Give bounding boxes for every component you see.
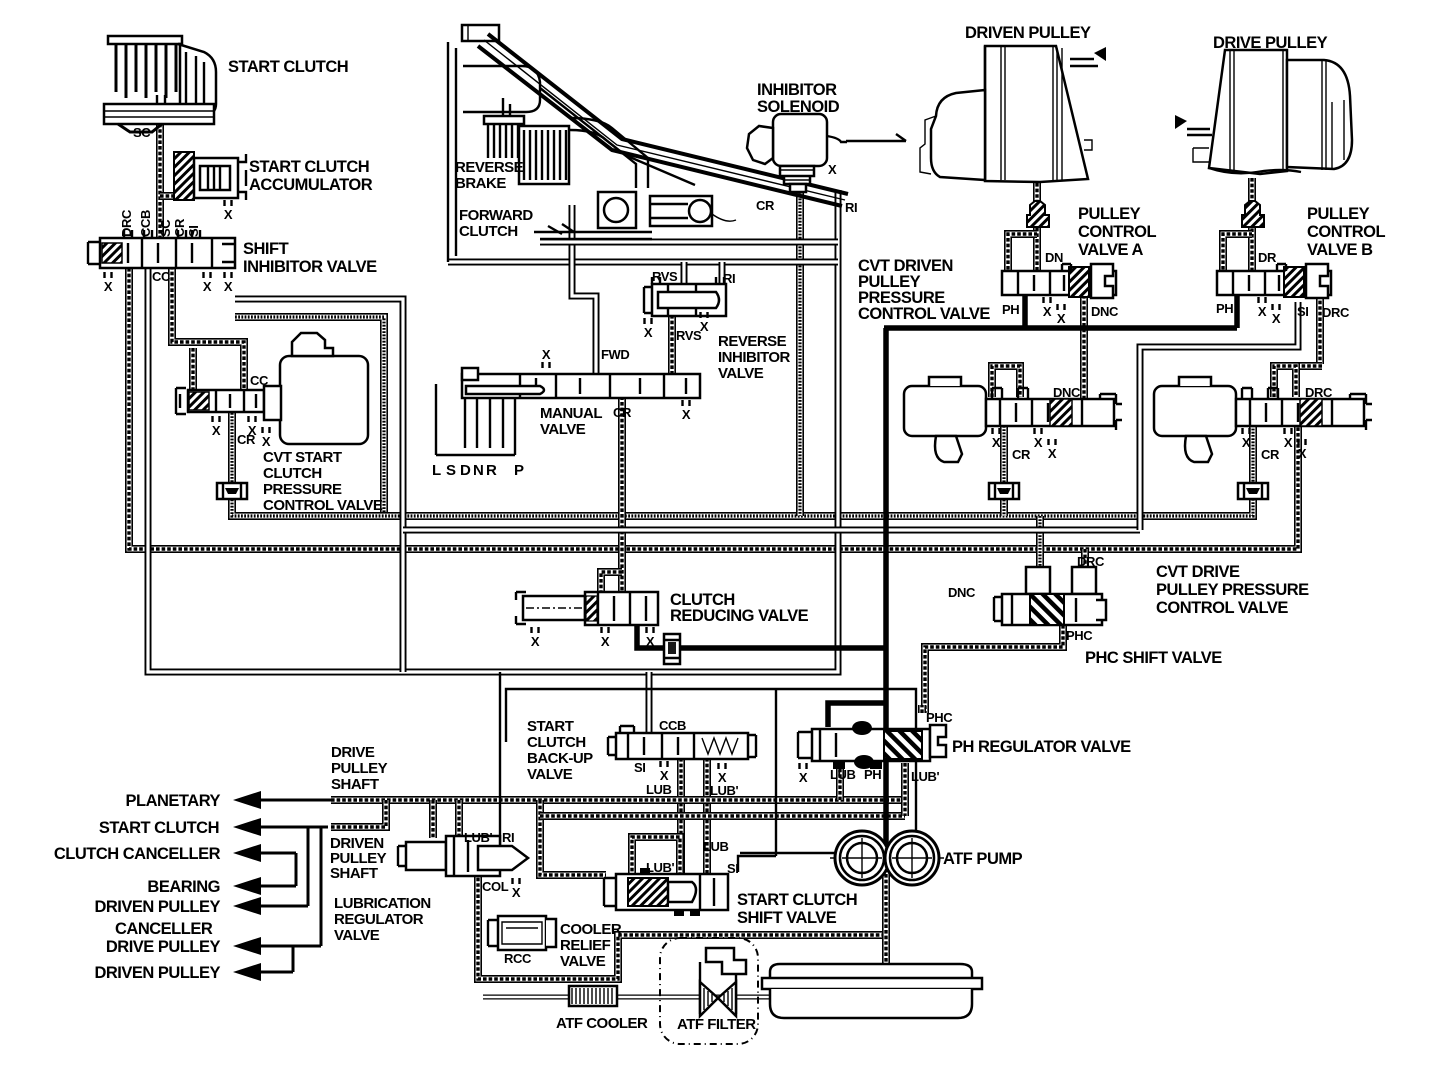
wire LUB drop lines to start clutch shift valve — [681, 758, 707, 874]
svg-text:RELIEF: RELIEF — [560, 937, 611, 954]
wire RI thin line to lubrication regulator valve — [499, 672, 501, 846]
svg-text:X: X — [660, 768, 669, 783]
label CCB — [659, 718, 686, 733]
wire suction line from oil pan to ATF pump — [882, 858, 890, 984]
svg-text:X: X — [601, 634, 610, 649]
svg-text:N: N — [473, 462, 483, 479]
svg-text:RI: RI — [502, 830, 514, 845]
ATF pump — [830, 831, 944, 885]
svg-text:RCC: RCC — [504, 951, 532, 966]
svg-text:CONTROL: CONTROL — [1078, 223, 1156, 241]
svg-text:X: X — [1242, 435, 1251, 450]
svg-text:CLUTCH: CLUTCH — [263, 465, 322, 482]
svg-text:CCB: CCB — [659, 718, 686, 733]
wire drain collection box (thin) — [506, 689, 916, 853]
label LUB' (regulator) — [911, 769, 940, 784]
svg-text:CANCELLER: CANCELLER — [115, 920, 213, 938]
label START CLUTCH BACK-UP VALVE — [527, 718, 593, 783]
svg-text:REDUCING VALVE: REDUCING VALVE — [670, 607, 809, 625]
svg-text:X: X — [262, 434, 271, 449]
wire PHC line (PHC shift valve to PH regulator valve) — [925, 625, 1063, 713]
svg-text:X: X — [224, 207, 233, 222]
label CLUTCH CANCELLER — [54, 845, 221, 863]
wire LUB riser to PH regulator valve — [836, 763, 844, 800]
svg-text:INHIBITOR VALVE: INHIBITOR VALVE — [243, 258, 377, 276]
svg-text:BRAKE: BRAKE — [455, 175, 506, 192]
lubrication regulator valve — [398, 836, 528, 876]
wire PHC riser from PH regulator to PHC shift valve area — [918, 705, 926, 713]
wire FWD line (forward clutch to manual valve) — [572, 205, 596, 374]
label ATF FILTER — [677, 1016, 756, 1033]
label SI (valve B) — [1297, 304, 1308, 319]
svg-text:START: START — [527, 718, 574, 735]
svg-text:RVS: RVS — [652, 269, 678, 284]
CVT drive pulley pressure control valve — [1154, 377, 1372, 462]
label L S D N R P — [432, 462, 524, 479]
svg-text:DRC: DRC — [119, 209, 134, 237]
svg-text:X: X — [799, 770, 808, 785]
svg-text:COOLER: COOLER — [560, 921, 622, 938]
label MANUAL VALVE — [540, 405, 602, 438]
wire LUB bus (y=800, drive pulley shaft lube) — [331, 796, 905, 804]
svg-text:X: X — [828, 162, 837, 177]
svg-text:SI: SI — [1297, 304, 1308, 319]
label LUB' (back-up valve) — [710, 783, 739, 798]
svg-text:R: R — [486, 462, 497, 479]
wire loop above CVT driven pulley PCV — [992, 366, 1020, 397]
wire stipple branch x=390 from shift inhibitor valve into CR bus A — [235, 317, 384, 514]
svg-text:VALVE: VALVE — [334, 927, 380, 944]
CVT driven pulley pressure control valve — [904, 377, 1122, 462]
label RI (lube valve) — [502, 830, 514, 845]
label START CLUTCH ACCUMULATOR — [249, 158, 373, 194]
svg-text:DRIVE PULLEY: DRIVE PULLEY — [106, 938, 221, 956]
label DRIVEN PULLEY (arrow) — [94, 964, 220, 982]
ATF cooler — [569, 986, 617, 1006]
wire CR bus A (stipple, y=516) with orifice risers — [232, 192, 1253, 567]
label CR (manual valve) — [613, 405, 632, 420]
clutch reducing valve — [516, 592, 658, 625]
svg-text:VALVE: VALVE — [540, 421, 586, 438]
svg-text:DRC: DRC — [1305, 385, 1333, 400]
svg-text:DRIVEN PULLEY: DRIVEN PULLEY — [94, 964, 220, 982]
wire PH main pressure line (ATF pump up to pulley control valves) — [884, 290, 1237, 860]
drive pulley — [1175, 50, 1352, 174]
label RI (reverse inhibitor) — [723, 271, 735, 286]
svg-text:RI: RI — [845, 200, 857, 215]
svg-text:PH: PH — [864, 767, 881, 782]
svg-text:INHIBITOR: INHIBITOR — [718, 349, 791, 366]
wire driven pulley shaft feed — [1027, 183, 1049, 272]
svg-text:CONTROL VALVE: CONTROL VALVE — [1156, 599, 1288, 617]
wire loop above start clutch shift valve — [632, 837, 680, 877]
svg-text:BEARING: BEARING — [147, 878, 220, 896]
svg-text:CR: CR — [172, 218, 187, 237]
svg-text:PULLEY: PULLEY — [1307, 205, 1370, 223]
cooler relief valve — [488, 916, 556, 950]
oil pan — [762, 964, 982, 1018]
label FWD — [601, 347, 629, 362]
svg-text:MANUAL: MANUAL — [540, 405, 602, 422]
node PLANETARY arrow — [233, 791, 331, 809]
label COOLER RELIEF VALVE — [560, 921, 622, 970]
label DNC (driven PCV) — [1053, 385, 1081, 400]
label INHIBITOR SOLENOID — [757, 81, 840, 116]
label DRIVEN PULLEY SHAFT — [330, 835, 387, 882]
label START CLUTCH SHIFT VALVE — [737, 891, 857, 927]
label PULLEY CONTROL VALVE A — [1078, 205, 1156, 259]
label DN — [1045, 250, 1063, 265]
svg-text:SI: SI — [634, 760, 645, 775]
pulley control valve B — [1217, 234, 1331, 298]
svg-text:SOLENOID: SOLENOID — [757, 98, 840, 116]
svg-text:X: X — [1043, 304, 1052, 319]
label DRC (drive PCV) — [1305, 385, 1333, 400]
label RI (solenoid) — [845, 200, 857, 215]
svg-text:X: X — [1034, 435, 1043, 450]
label LUB (shift valve) — [703, 839, 729, 854]
forward clutch and reverse brake assembly — [448, 25, 848, 262]
svg-text:LUB: LUB — [830, 767, 856, 782]
svg-text:REVERSE: REVERSE — [455, 159, 524, 176]
svg-text:REVERSE: REVERSE — [718, 333, 787, 350]
wire DRC leg from bus C to PHC shift valve DRC box — [1081, 549, 1089, 567]
svg-text:CLUTCH: CLUTCH — [527, 734, 586, 751]
svg-text:LUB: LUB — [646, 782, 672, 797]
inhibitor solenoid — [747, 114, 847, 192]
wire SI line from pulley control valve B to bus B — [1140, 302, 1298, 530]
svg-text:LUB': LUB' — [464, 830, 493, 845]
label CR (PCV orifice) — [237, 432, 256, 447]
svg-text:X: X — [542, 347, 551, 362]
svg-text:DNC: DNC — [1053, 385, 1081, 400]
label RVS bottom — [676, 328, 702, 343]
svg-text:CR: CR — [1012, 447, 1031, 462]
svg-text:PRESSURE: PRESSURE — [263, 481, 342, 498]
wire DRC left riser and CR bus C (hatched, y=549) to drive PCV DRC — [129, 268, 1298, 549]
shift inhibitor valve — [88, 230, 236, 268]
label X and RVS top — [652, 269, 678, 284]
svg-text:ATF PUMP: ATF PUMP — [943, 850, 1023, 868]
svg-text:X: X — [646, 634, 655, 649]
wire clutch assembly base line y=242 — [540, 239, 838, 246]
label START CLUTCH — [228, 58, 348, 76]
wire CCB drop to start clutch back-up valve — [646, 672, 653, 733]
svg-text:PLANETARY: PLANETARY — [126, 792, 221, 810]
label DRIVE PULLEY — [1213, 34, 1328, 52]
wire driven pulley shaft stub (y=827) — [331, 800, 386, 827]
orifice on PH line from clutch reducing valve — [664, 634, 680, 664]
svg-text:DN: DN — [1045, 250, 1063, 265]
node CLUTCH CANCELLER arrow — [233, 844, 296, 886]
svg-text:SC: SC — [133, 125, 151, 140]
label SHIFT INHIBITOR VALVE — [243, 240, 377, 276]
svg-text:DNC: DNC — [1091, 304, 1119, 319]
drain ports X — [104, 200, 1307, 900]
node DRIVEN PULLEY CANCELLER arrow — [233, 827, 308, 915]
svg-text:X: X — [104, 279, 113, 294]
svg-text:CONTROL VALVE: CONTROL VALVE — [858, 305, 990, 323]
svg-text:DRIVE PULLEY: DRIVE PULLEY — [1213, 34, 1328, 52]
svg-text:PH: PH — [1216, 301, 1233, 316]
label DRC (PHC shift valve) — [1077, 554, 1105, 569]
CVT start clutch pressure control valve — [176, 333, 368, 444]
wire SI thin line from start clutch shift valve — [738, 689, 776, 872]
label DNC (valve A) — [1091, 304, 1119, 319]
svg-text:VALVE: VALVE — [560, 953, 606, 970]
wire LUB' riser to PH regulator valve — [901, 763, 909, 816]
svg-text:PULLEY: PULLEY — [1078, 205, 1141, 223]
svg-text:PH: PH — [1002, 302, 1019, 317]
start clutch accumulator — [174, 152, 246, 200]
svg-text:X: X — [1284, 435, 1293, 450]
label PLANETARY — [126, 792, 221, 810]
svg-text:VALVE A: VALVE A — [1078, 241, 1144, 259]
wire PH black elbow at PH regulator valve — [828, 703, 884, 727]
svg-text:CONTROL: CONTROL — [1307, 223, 1385, 241]
svg-text:LUBRICATION: LUBRICATION — [334, 895, 431, 912]
label PH (regulator) — [864, 767, 881, 782]
label RCC — [504, 951, 532, 966]
svg-text:LUB': LUB' — [710, 783, 739, 798]
svg-text:S: S — [446, 462, 456, 479]
svg-text:VALVE: VALVE — [527, 766, 573, 783]
svg-text:DR: DR — [1258, 250, 1277, 265]
svg-text:SHIFT: SHIFT — [243, 240, 289, 258]
svg-text:START CLUTCH: START CLUTCH — [99, 819, 219, 837]
label PULLEY CONTROL VALVE B — [1307, 205, 1385, 259]
svg-text:DRIVEN PULLEY: DRIVEN PULLEY — [94, 898, 220, 916]
label FORWARD CLUTCH — [459, 207, 533, 240]
start clutch back-up valve — [608, 726, 756, 759]
label REVERSE BRAKE — [455, 159, 524, 192]
label PH REGULATOR VALVE — [952, 738, 1131, 756]
svg-text:DRIVEN PULLEY: DRIVEN PULLEY — [965, 24, 1091, 42]
svg-text:CR: CR — [756, 198, 775, 213]
label DNC (PHC shift valve) — [948, 585, 976, 600]
svg-text:BACK-UP: BACK-UP — [527, 750, 593, 767]
label LUB (back-up valve) — [646, 782, 672, 797]
label ATF PUMP — [943, 850, 1023, 868]
svg-text:FWD: FWD — [601, 347, 629, 362]
svg-text:REGULATOR: REGULATOR — [334, 911, 424, 928]
orifice on drive PCV CR line — [1238, 483, 1268, 499]
label DR — [1258, 250, 1277, 265]
svg-text:CVT START: CVT START — [263, 449, 342, 466]
label PH (valve B) — [1216, 301, 1233, 316]
svg-text:FORWARD: FORWARD — [459, 207, 533, 224]
label DRC (valve B) — [1322, 305, 1350, 320]
wire PH line from clutch reducing valve — [637, 623, 884, 648]
label CR (solenoid) — [756, 198, 775, 213]
svg-text:LUB': LUB' — [911, 769, 940, 784]
ATF filter — [660, 938, 758, 1044]
svg-text:CLUTCH CANCELLER: CLUTCH CANCELLER — [54, 845, 221, 863]
svg-text:ATF FILTER: ATF FILTER — [677, 1016, 756, 1033]
wire RI bus D (shift inhibitor valve, y=672, up to inhibitor solenoid) — [148, 190, 838, 672]
svg-text:SI: SI — [186, 226, 201, 237]
label ATF COOLER — [556, 1015, 648, 1032]
manual valve with selector positions — [436, 368, 700, 455]
svg-text:X: X — [1048, 446, 1057, 461]
label LUBRICATION REGULATOR VALVE — [334, 895, 431, 944]
svg-text:ATF COOLER: ATF COOLER — [556, 1015, 648, 1032]
svg-text:PHC: PHC — [926, 710, 953, 725]
wire RVS line (reverse inhibitor valve to manual valve) and CR drop to clutch reducing valve — [601, 315, 672, 593]
label CC (PCV) — [250, 373, 269, 388]
svg-text:X: X — [644, 325, 653, 340]
labels DRC CCB SC CR SI (rotated ports) — [119, 209, 201, 237]
PHC shift valve — [994, 567, 1106, 625]
svg-text:RVS: RVS — [676, 328, 702, 343]
wire DNC line (pulley control valve A to driven PCV) — [1080, 295, 1088, 399]
svg-text:PULLEY PRESSURE: PULLEY PRESSURE — [1156, 581, 1309, 599]
wire cooler relief loop and return bus (y=935) — [478, 872, 886, 979]
orifice on CVT start clutch PCV CR line — [217, 483, 247, 499]
wire DNC bus B (y=530) — [403, 527, 1140, 534]
label SC — [133, 125, 151, 140]
wire cooler return line y=997 to oil pan — [483, 995, 893, 1000]
svg-text:P: P — [514, 462, 524, 479]
svg-text:DRIVE: DRIVE — [331, 744, 375, 761]
svg-text:SHIFT VALVE: SHIFT VALVE — [737, 909, 837, 927]
label CR (driven PCV) — [1012, 447, 1031, 462]
svg-text:SHAFT: SHAFT — [331, 776, 379, 793]
node DRIVE PULLEY arrow — [233, 827, 321, 955]
svg-text:PHC SHIFT VALVE: PHC SHIFT VALVE — [1085, 649, 1222, 667]
svg-text:COL: COL — [482, 879, 509, 894]
wire SI run y=299 from shift inhibitor valve down right side x=403 — [235, 299, 403, 672]
svg-text:SC: SC — [158, 219, 173, 237]
label LUB (regulator) — [830, 767, 856, 782]
wire solenoid connector stub — [846, 134, 906, 141]
svg-text:X: X — [1298, 446, 1307, 461]
node START CLUTCH arrow — [233, 818, 328, 836]
wire SC line (start clutch to shift inhibitor valve) — [160, 118, 178, 240]
svg-text:START CLUTCH: START CLUTCH — [737, 891, 857, 909]
wire feeds from LUB bus to lubrication regulator valve — [433, 800, 459, 838]
reverse inhibitor valve — [644, 277, 726, 316]
label DRIVE PULLEY (arrow) — [106, 938, 221, 956]
label PH (valve A) — [1002, 302, 1019, 317]
svg-text:X: X — [512, 885, 521, 900]
orifice on driven PCV CR line — [989, 483, 1019, 499]
svg-text:DNC: DNC — [948, 585, 976, 600]
svg-text:X: X — [682, 407, 691, 422]
wire drive pulley shaft feed — [1242, 178, 1264, 272]
label DRIVEN PULLEY — [965, 24, 1091, 42]
svg-text:START CLUTCH: START CLUTCH — [249, 158, 369, 176]
label PHC SHIFT VALVE — [1085, 649, 1222, 667]
label START CLUTCH (arrow) — [99, 819, 219, 837]
label REVERSE INHIBITOR VALVE — [718, 333, 791, 382]
label SI (back-up valve) — [634, 760, 645, 775]
wire loop above CVT drive pulley PCV — [1274, 366, 1296, 397]
svg-text:PULLEY: PULLEY — [331, 760, 388, 777]
label CC (shift inhibitor) — [152, 269, 171, 284]
svg-text:SI: SI — [727, 861, 738, 876]
wire DRC line (pulley control valve B to drive PCV) — [1296, 295, 1322, 366]
wire CC line (shift inhibitor valve to CVT start clutch PCV) — [172, 266, 244, 390]
svg-text:DRC: DRC — [1322, 305, 1350, 320]
svg-text:CCB: CCB — [138, 210, 153, 237]
label PHC (PH regulator) — [926, 710, 953, 725]
svg-text:CR: CR — [237, 432, 256, 447]
svg-text:X: X — [1258, 304, 1267, 319]
svg-text:CC: CC — [250, 373, 269, 388]
pulley control valve A — [1002, 234, 1116, 298]
svg-text:CR: CR — [1261, 447, 1280, 462]
label CVT START CLUTCH PRESSURE CONTROL VALVE — [263, 449, 383, 514]
svg-text:VALVE B: VALVE B — [1307, 241, 1373, 259]
svg-text:ACCUMULATOR: ACCUMULATOR — [249, 176, 373, 194]
start clutch shift valve — [604, 868, 728, 916]
label LUB' (shift valve) — [646, 860, 675, 875]
label CVT DRIVEN PULLEY PRESSURE CONTROL VALVE — [858, 257, 990, 323]
label CVT DRIVE PULLEY PRESSURE CONTROL VALVE — [1156, 563, 1309, 617]
svg-text:X: X — [203, 279, 212, 294]
svg-text:X: X — [1272, 311, 1281, 326]
label PHC (PHC shift valve) — [1066, 628, 1093, 643]
svg-text:VALVE: VALVE — [718, 365, 764, 382]
start clutch drawing — [104, 36, 216, 132]
svg-text:START CLUTCH: START CLUTCH — [228, 58, 348, 76]
svg-text:PHC: PHC — [1066, 628, 1093, 643]
svg-text:X: X — [992, 435, 1001, 450]
label DRIVEN PULLEY CANCELLER — [94, 898, 220, 938]
label SI (shift valve) — [727, 861, 738, 876]
svg-text:CC: CC — [152, 269, 171, 284]
label CLUTCH REDUCING VALVE — [670, 591, 809, 625]
svg-text:CONTROL VALVE: CONTROL VALVE — [263, 497, 383, 514]
svg-text:D: D — [460, 462, 471, 479]
svg-text:X: X — [531, 634, 540, 649]
PH regulator valve — [798, 721, 946, 769]
svg-text:SHAFT: SHAFT — [330, 865, 378, 882]
svg-text:X: X — [212, 423, 221, 438]
svg-text:PH REGULATOR VALVE: PH REGULATOR VALVE — [952, 738, 1131, 756]
svg-text:INHIBITOR: INHIBITOR — [757, 81, 837, 99]
svg-text:X: X — [1057, 311, 1066, 326]
svg-text:CR: CR — [613, 405, 632, 420]
label LUB' (lube valve) — [464, 830, 493, 845]
node BEARING arrow — [233, 877, 296, 895]
wire LUB2 bus (y=816) with branch to start clutch shift valve — [540, 800, 905, 875]
label BEARING — [147, 878, 220, 896]
wire RI distribution line y=262 with stubs to reverse inhibitor valve — [448, 262, 838, 284]
svg-text:L: L — [432, 462, 441, 479]
node DRIVEN PULLEY arrow — [233, 946, 293, 981]
svg-text:X: X — [224, 279, 233, 294]
label DRIVE PULLEY SHAFT — [331, 744, 388, 793]
svg-text:CLUTCH: CLUTCH — [459, 223, 518, 240]
label COL — [482, 879, 509, 894]
svg-text:RI: RI — [723, 271, 735, 286]
driven pulley — [920, 46, 1106, 182]
svg-text:LUB': LUB' — [646, 860, 675, 875]
label CR (drive PCV) — [1261, 447, 1280, 462]
svg-text:DRC: DRC — [1077, 554, 1105, 569]
svg-text:LUB: LUB — [703, 839, 729, 854]
svg-text:CVT DRIVE: CVT DRIVE — [1156, 563, 1240, 581]
